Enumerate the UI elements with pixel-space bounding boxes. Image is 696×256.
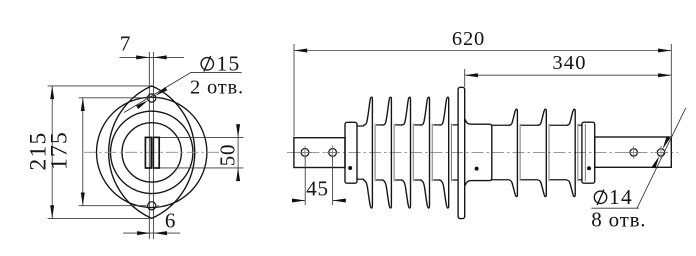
right bar hole 1: [627, 146, 640, 159]
dim 215 arrow bottom: [50, 205, 54, 218]
dim 340 line: [465, 74, 672, 76]
svg-text:15: 15: [217, 52, 241, 76]
big shed 1: [363, 97, 372, 208]
flange 1: [345, 122, 357, 183]
dim 175 extension line top: [79, 97, 147, 99]
dim 340 arrow left: [465, 73, 478, 77]
dim 6 arrow right: [154, 231, 167, 235]
dim 45 arrow right: [333, 199, 346, 203]
dim 50 line: [237, 124, 239, 181]
flange 1 rivet dot: [348, 166, 352, 170]
svg-text:50: 50: [215, 144, 239, 167]
svg-text:8 отв.: 8 отв.: [591, 208, 646, 232]
svg-text:175: 175: [47, 131, 73, 170]
d15 leader underline: [191, 71, 242, 73]
right bar (tongue plate): [595, 137, 672, 167]
dim 45 extension line right: [332, 157, 334, 205]
left bar (tongue plate): [294, 138, 345, 168]
flange 3 inner line: [584, 124, 586, 181]
dim 620 line: [294, 50, 671, 52]
dim 6 line: [123, 232, 180, 234]
dim 45 line left stub: [295, 200, 306, 202]
big shed 3: [401, 97, 410, 208]
dim 620 arrow left: [294, 49, 307, 53]
central big shed disc: [458, 87, 465, 218]
dim 50 extension line bottom: [160, 167, 244, 169]
dim 7 line: [120, 56, 184, 58]
svg-text:45: 45: [306, 176, 329, 200]
big shed 5: [440, 97, 449, 208]
dim 620/340 extension line right: [670, 44, 672, 136]
dim 215 arrow top: [50, 86, 54, 99]
dim 215 extension line bottom: [48, 217, 150, 219]
boss after flange 1 bottom: [357, 178, 364, 180]
flange 2 (right of disc): [465, 119, 492, 185]
left view: oval plate outline (lens): [109, 86, 195, 219]
dim 7 arrow right: [154, 55, 167, 59]
d15 leader line: [124, 72, 191, 112]
flange 3: [582, 122, 595, 183]
svg-text:14: 14: [609, 185, 633, 209]
dim 175 arrow top: [81, 98, 85, 111]
d15 diameter symbol: [201, 56, 213, 72]
left bar hole 2: [326, 146, 340, 160]
flange 2 rivet dot: [475, 167, 479, 171]
dim 45 extension line left: [304, 157, 306, 205]
boss after flange 1 top: [357, 125, 364, 127]
dim 175 line: [82, 98, 84, 206]
big shed 2: [382, 97, 391, 208]
d14 diameter symbol: [594, 190, 606, 206]
left view: middle circle: [111, 111, 193, 193]
svg-text:2 отв.: 2 отв.: [190, 77, 244, 99]
dim 620 extension line left: [293, 44, 295, 137]
left view: top hole (d15): [148, 94, 156, 102]
left view: outer flange circle (d=180): [97, 97, 207, 207]
left view: horizontal centerline: [84, 151, 219, 153]
right view: axis centerline: [287, 151, 678, 153]
left view: bottom hole tick: [156, 205, 159, 207]
d14 leader line: [637, 108, 686, 208]
dim 45 arrow left: [292, 199, 305, 203]
dim 175 arrow bottom: [81, 193, 85, 206]
left bar hole 1: [298, 146, 312, 160]
small shed 1: [509, 109, 518, 196]
dim 7 arrow left: [136, 55, 149, 59]
big shed 4: [420, 97, 429, 208]
dim 175 extension line bottom: [79, 205, 147, 207]
dim 50 arrow bottom: [236, 168, 240, 181]
svg-text:6: 6: [165, 208, 176, 232]
small shed 2: [538, 109, 547, 196]
core lines left shed group: [376, 124, 383, 126]
dim 340 extension line left: [464, 69, 466, 87]
d15 arrow lower: [136, 100, 148, 109]
dim 215 extension line top: [48, 85, 150, 87]
left view: vertical tongue edge line (right): [153, 52, 155, 239]
dim 45 line right stub: [333, 200, 346, 202]
svg-text:7: 7: [120, 31, 131, 55]
dim 340 arrow right: [658, 73, 671, 77]
dim 620 arrow right: [658, 49, 671, 53]
dim 215 line: [51, 86, 53, 219]
small shed 3: [567, 109, 576, 196]
d14 arrow lower: [652, 156, 660, 169]
core lines right shed group: [492, 124, 510, 126]
dim 50 arrow top: [236, 124, 240, 137]
d15 arrow upper: [155, 87, 167, 96]
dim 6 arrow left: [137, 231, 150, 235]
left view: inner circle (core): [122, 123, 181, 182]
right bar hole 2: [654, 146, 667, 159]
left view: slot block left rectangle: [145, 137, 151, 168]
left view: slot block right rectangle: [153, 137, 159, 168]
svg-text:340: 340: [552, 52, 586, 74]
left view: bottom hole (d15): [148, 202, 156, 210]
left view: top hole tick: [156, 97, 159, 99]
d14 leader underline: [591, 207, 639, 209]
svg-text:620: 620: [452, 28, 485, 50]
flange 3 rivet dot: [587, 166, 591, 170]
dim 50 extension line top: [160, 136, 244, 138]
d14 arrow upper: [663, 136, 671, 149]
left view: vertical tongue edge line (left): [148, 52, 150, 239]
